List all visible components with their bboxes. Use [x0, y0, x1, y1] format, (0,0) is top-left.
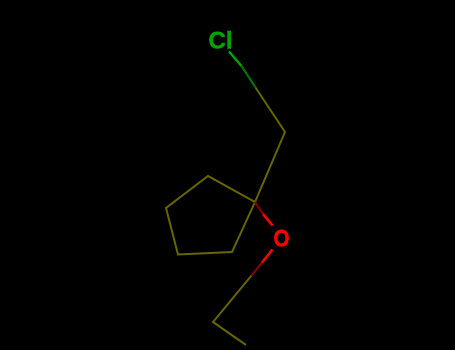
svg-text:O: O [273, 225, 289, 252]
svg-text:Cl: Cl [209, 28, 233, 55]
